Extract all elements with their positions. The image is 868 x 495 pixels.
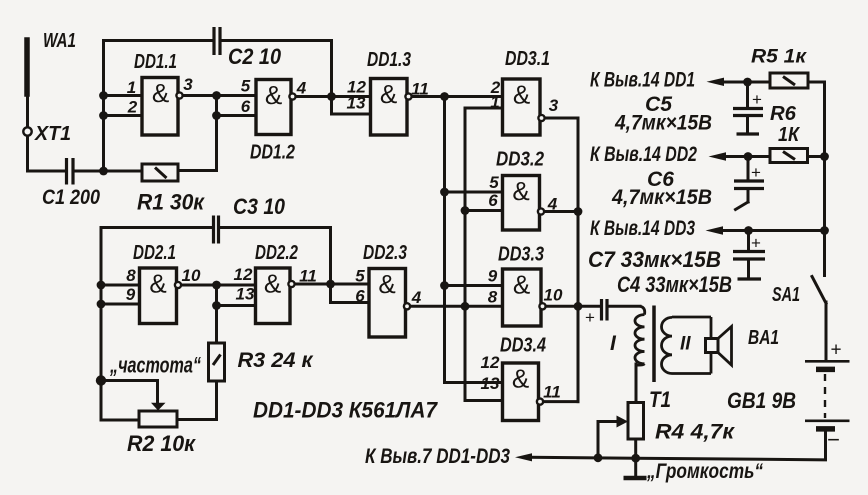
svg-text:&: & — [380, 79, 397, 109]
svg-text:DD2.3: DD2.3 — [363, 242, 407, 264]
svg-text:XT1: XT1 — [34, 123, 71, 145]
svg-text:&: & — [512, 364, 529, 394]
svg-text:T1: T1 — [649, 387, 671, 412]
svg-text:10: 10 — [544, 286, 563, 305]
svg-text:R4 4,7к: R4 4,7к — [655, 421, 735, 444]
svg-text:−: − — [827, 427, 840, 452]
svg-text:2: 2 — [127, 98, 138, 117]
svg-text:C2 10: C2 10 — [228, 44, 282, 69]
svg-text:11: 11 — [411, 80, 429, 99]
svg-text:DD3.2: DD3.2 — [496, 149, 544, 171]
svg-text:+: + — [751, 234, 761, 253]
svg-text:&: & — [152, 78, 169, 108]
svg-text:&: & — [264, 269, 281, 299]
svg-text:+: + — [585, 308, 595, 327]
svg-text:DD3.1: DD3.1 — [505, 48, 550, 70]
svg-text:К Выв.14 DD1: К Выв.14 DD1 — [590, 69, 695, 92]
svg-text:&: & — [265, 80, 282, 110]
svg-text:R3 24 к: R3 24 к — [238, 349, 314, 372]
svg-text:4,7мк×15В: 4,7мк×15В — [614, 112, 712, 135]
svg-text:1: 1 — [490, 93, 499, 112]
svg-text:DD1.1: DD1.1 — [134, 51, 177, 73]
svg-text:К Выв.14 DD3: К Выв.14 DD3 — [590, 217, 695, 240]
svg-text:5: 5 — [241, 77, 251, 96]
svg-text:13: 13 — [236, 285, 255, 304]
svg-text:3: 3 — [549, 96, 559, 115]
svg-text:C1 200: C1 200 — [42, 186, 100, 209]
svg-text:+: + — [752, 90, 762, 109]
svg-text:C7 33мк×15В: C7 33мк×15В — [588, 247, 721, 272]
svg-text:4: 4 — [547, 195, 558, 214]
svg-text:5: 5 — [489, 173, 499, 192]
svg-text:GB1 9В: GB1 9В — [727, 388, 796, 413]
svg-text:DD3.4: DD3.4 — [500, 335, 546, 357]
svg-text:1: 1 — [127, 78, 136, 97]
svg-text:10: 10 — [182, 266, 201, 285]
svg-text:DD2.2: DD2.2 — [255, 242, 298, 264]
svg-text:6: 6 — [241, 97, 251, 116]
svg-text:4,7мк×15В: 4,7мк×15В — [611, 186, 712, 209]
svg-text:DD1.2: DD1.2 — [250, 142, 295, 164]
svg-text:C3 10: C3 10 — [233, 194, 286, 219]
svg-text:11: 11 — [299, 267, 317, 286]
svg-text:R6: R6 — [770, 103, 797, 125]
svg-text:&: & — [513, 270, 530, 300]
svg-text:8: 8 — [126, 266, 136, 285]
svg-text:4: 4 — [411, 288, 422, 307]
svg-text:„частота“: „частота“ — [109, 353, 201, 378]
svg-text:R5 1к: R5 1к — [751, 47, 808, 68]
svg-text:12: 12 — [481, 353, 500, 372]
svg-text:12: 12 — [234, 265, 253, 284]
svg-text:К Выв.7 DD1-DD3: К Выв.7 DD1-DD3 — [365, 445, 510, 468]
svg-text:&: & — [513, 80, 530, 110]
svg-text:13: 13 — [347, 94, 366, 113]
svg-text:SA1: SA1 — [772, 284, 800, 306]
svg-text:BA1: BA1 — [748, 327, 779, 349]
svg-text:9: 9 — [126, 285, 136, 304]
svg-text:&: & — [149, 269, 166, 299]
svg-text:WA1: WA1 — [43, 30, 76, 52]
svg-text:+: + — [751, 163, 761, 182]
svg-text:5: 5 — [355, 267, 365, 286]
svg-text:9: 9 — [488, 267, 498, 286]
svg-text:К Выв.14 DD2: К Выв.14 DD2 — [590, 143, 697, 166]
svg-text:13: 13 — [481, 374, 500, 393]
svg-text:&: & — [512, 176, 529, 206]
svg-text:„Громкость“: „Громкость“ — [646, 460, 763, 483]
svg-text:II: II — [680, 334, 691, 355]
svg-text:3: 3 — [183, 75, 193, 94]
svg-text:6: 6 — [488, 191, 498, 210]
svg-text:+: + — [830, 340, 841, 361]
svg-text:DD3.3: DD3.3 — [498, 244, 544, 266]
svg-text:1К: 1К — [778, 124, 801, 146]
svg-text:&: & — [378, 269, 395, 299]
svg-text:6: 6 — [355, 287, 365, 306]
svg-text:11: 11 — [543, 383, 561, 402]
svg-text:R1 30к: R1 30к — [137, 190, 206, 215]
svg-text:C4 33мк×15В: C4 33мк×15В — [617, 272, 732, 297]
svg-text:DD1.3: DD1.3 — [367, 49, 411, 71]
svg-text:R2 10к: R2 10к — [127, 431, 197, 456]
svg-text:8: 8 — [488, 288, 498, 307]
svg-text:4: 4 — [296, 79, 307, 98]
svg-text:DD1-DD3 К561ЛА7: DD1-DD3 К561ЛА7 — [253, 398, 439, 423]
svg-text:DD2.1: DD2.1 — [133, 242, 176, 264]
